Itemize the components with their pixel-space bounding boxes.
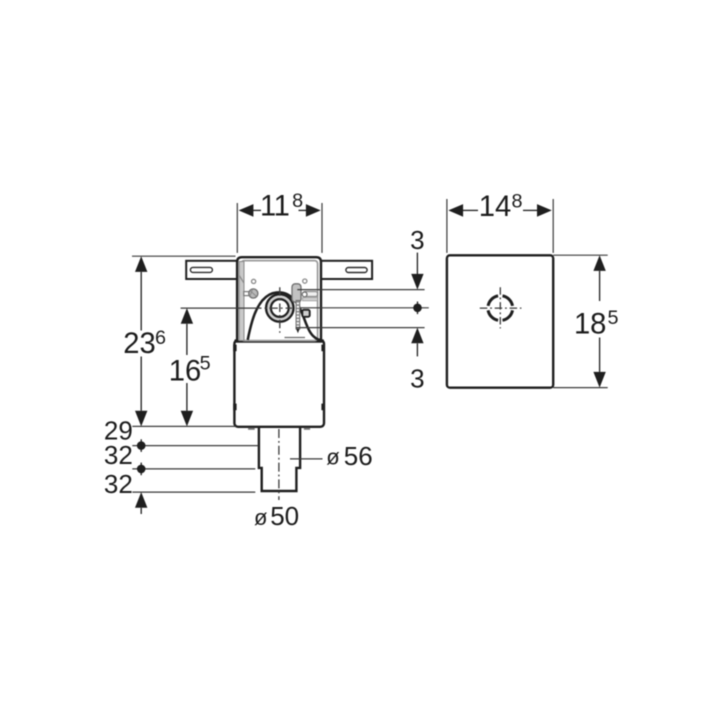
dimension 148 line left xyxy=(462,209,478,211)
lower box clip left bottom xyxy=(233,404,236,411)
chain dot upper xyxy=(137,441,146,450)
inner frame xyxy=(241,261,317,341)
hatched column fill xyxy=(296,301,299,329)
svg-text:ø: ø xyxy=(254,505,267,530)
svg-text:56: 56 xyxy=(344,441,373,471)
svg-text:5: 5 xyxy=(607,307,618,329)
dimension 185 arrow bottom xyxy=(593,372,605,388)
right bracket slot xyxy=(346,268,367,273)
cover plate (side view) xyxy=(447,255,553,387)
circle centerline vertical xyxy=(279,287,281,333)
svg-text:32: 32 xyxy=(104,469,133,499)
left guide rail xyxy=(239,262,244,341)
offset dim 3 top shaft xyxy=(416,253,418,275)
leader line hook level xyxy=(297,289,424,291)
cover crosshair horizontal xyxy=(480,307,522,309)
offset dim 3 bottom shaft xyxy=(416,343,418,356)
chain leader line bottom xyxy=(132,491,255,493)
screw knob xyxy=(249,289,258,298)
svg-text:8: 8 xyxy=(511,190,522,212)
inlet pipe seal ring xyxy=(269,297,291,319)
lower box foot tab right xyxy=(304,428,310,430)
dimension 148 extension right xyxy=(552,199,554,253)
inlet pipe circle inner xyxy=(271,299,289,317)
lower housing box xyxy=(234,340,324,427)
leader line axis level xyxy=(301,307,429,309)
chain leader line 32 upper xyxy=(132,445,258,447)
hole left xyxy=(252,279,256,283)
screw knob hatch xyxy=(250,290,257,297)
svg-text:8: 8 xyxy=(292,190,303,212)
dimension 118 extension right xyxy=(321,203,323,253)
dimension 236 line upper xyxy=(140,272,142,331)
dimension 165 arrow top xyxy=(181,308,193,324)
left bracket slot xyxy=(190,267,212,272)
svg-text:16: 16 xyxy=(169,355,201,387)
dimension 236 extension top xyxy=(132,255,236,257)
dimension 165 line upper xyxy=(186,324,188,355)
left mounting bracket xyxy=(186,261,238,279)
svg-text:23: 23 xyxy=(123,328,155,360)
rail notch xyxy=(239,276,244,284)
hole right xyxy=(303,279,307,283)
dimension 185 extension top xyxy=(553,254,608,256)
lower box clip right bottom xyxy=(321,404,324,411)
hatched column xyxy=(296,301,300,330)
clamp fitting lower bar xyxy=(303,298,318,301)
overflow hook strip xyxy=(292,284,301,302)
dimension 185 line lower xyxy=(599,338,601,372)
clamp fitting upper bar xyxy=(303,292,318,297)
cover crosshair circle xyxy=(488,296,512,320)
dimension 148 arrow right xyxy=(537,204,552,217)
clamp fitting bolt xyxy=(302,292,307,297)
chain leader line 32 lower xyxy=(132,468,255,470)
dimension 185 arrow top xyxy=(593,255,605,271)
svg-text:6: 6 xyxy=(155,327,166,349)
offset dim 3 top arrow xyxy=(411,274,423,290)
chain dot lower xyxy=(137,465,146,474)
chain arrow bottom xyxy=(135,492,147,508)
dimension 148 line right xyxy=(523,209,539,211)
chain leader line 29 top xyxy=(132,425,236,427)
column tip xyxy=(296,329,299,333)
axis dot tick xyxy=(417,302,419,315)
dimension 185 extension bottom xyxy=(553,387,608,389)
dimension 165 arrow bottom xyxy=(181,411,193,427)
housing junction line xyxy=(235,339,324,342)
latch nub xyxy=(302,310,309,317)
svg-text:50: 50 xyxy=(270,501,299,531)
dimension 185 line upper xyxy=(599,271,601,301)
leader line seal level xyxy=(296,327,425,329)
dimension 165 line lower xyxy=(186,383,188,411)
leader line ø56 xyxy=(290,458,323,460)
lower box clip right top xyxy=(321,345,324,352)
dimension 118 arrow right xyxy=(306,204,321,217)
svg-text:14: 14 xyxy=(479,191,511,223)
svg-text:32: 32 xyxy=(104,440,133,470)
screw shaft xyxy=(244,292,250,296)
chain arrow shaft xyxy=(140,508,142,514)
pipe centerline xyxy=(278,429,280,500)
dimension 165 extension top xyxy=(181,307,253,309)
dimension 118 line left xyxy=(252,209,261,211)
dimension 148 arrow left xyxy=(448,204,463,217)
axis dot xyxy=(413,304,422,313)
dimension 148 extension left xyxy=(446,199,448,253)
inlet pipe circle outer xyxy=(266,294,293,321)
right mounting bracket xyxy=(321,261,373,279)
svg-text:3: 3 xyxy=(410,225,424,255)
svg-text:5: 5 xyxy=(200,352,211,374)
dimension 236 arrow bottom xyxy=(135,411,147,427)
offset dim 3 bottom arrow xyxy=(411,328,423,344)
svg-text:ø: ø xyxy=(326,445,339,470)
svg-text:18: 18 xyxy=(574,309,606,341)
outlet pipe stub ø56 xyxy=(259,424,300,491)
dimension 118 arrow left xyxy=(239,204,254,217)
trap bell housing xyxy=(248,292,322,340)
upper housing box xyxy=(237,257,321,341)
dimension 118 extension left xyxy=(236,203,238,253)
lower box foot tab left xyxy=(248,428,255,430)
water seal line xyxy=(285,337,306,339)
dimension 118 line right xyxy=(299,209,308,211)
chain dot upper tick xyxy=(140,439,142,452)
cover crosshair vertical xyxy=(499,287,501,328)
chain dot lower tick xyxy=(140,463,142,476)
lower box clip left top xyxy=(233,345,236,352)
svg-text:3: 3 xyxy=(410,363,424,393)
svg-text:11: 11 xyxy=(260,191,289,223)
dimension 236 line lower xyxy=(140,357,142,411)
circle centerline horizontal xyxy=(253,307,292,309)
dimension 236 arrow top xyxy=(135,256,147,272)
